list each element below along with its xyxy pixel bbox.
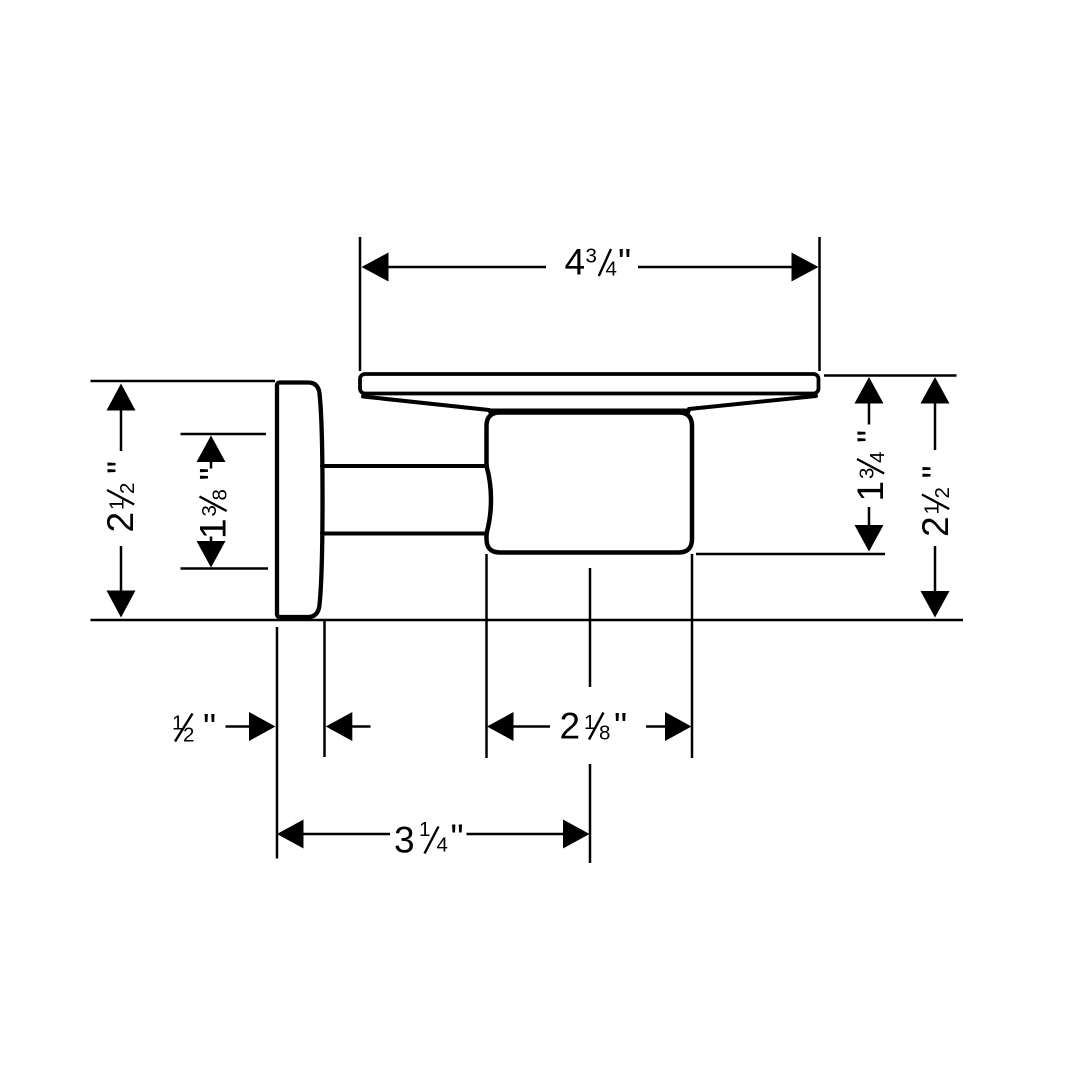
dimension line 1-3/8 (210, 462, 213, 541)
svg-text:": " (193, 467, 234, 480)
extension line 1-3/8 bottom (181, 567, 269, 570)
dimension line 2-1/8 (513, 725, 666, 728)
svg-text:1: 1 (850, 481, 891, 502)
wall baseline (91, 619, 964, 622)
extension line holder right below (691, 554, 694, 758)
dimension line 2-1/2 left (120, 411, 123, 591)
arrowhead 1/2 left (249, 712, 276, 741)
dish taper left (363, 397, 489, 411)
extension line 4-3/4 left (359, 237, 362, 371)
extension line 4-3/4 right (818, 237, 821, 371)
dimension line 1/2 (226, 725, 371, 728)
arrowhead 2-1/2 left bottom (107, 591, 136, 618)
label 2-1/2 inch right (rotated) (915, 465, 956, 537)
svg-text:2: 2 (183, 724, 194, 747)
svg-text:2: 2 (116, 483, 139, 494)
svg-text:": " (614, 706, 627, 747)
arrowhead 3-1/4 left (277, 820, 304, 849)
svg-text:4: 4 (565, 242, 586, 283)
arrowhead 2-1/2 left top (107, 384, 136, 411)
wall plate (277, 383, 323, 618)
arm top line (322, 464, 487, 468)
extension line wall plate left below (276, 627, 279, 859)
holder body (487, 413, 693, 553)
svg-text:2: 2 (931, 487, 954, 498)
holder top edge thick band (491, 409, 688, 415)
arrowhead 3-1/4 right (563, 820, 590, 849)
svg-text:2: 2 (915, 516, 956, 537)
arrowhead 2-1/2 right bottom (921, 591, 950, 618)
label 1-3/4 inch (rotated) (850, 430, 891, 502)
label 2-1/8 inch (560, 706, 628, 747)
svg-text:3: 3 (394, 820, 415, 861)
arrowhead 1-3/8 top (197, 436, 226, 463)
svg-text:": " (100, 461, 141, 474)
extension line 1-3/8 top (181, 433, 267, 436)
arm bottom line (322, 532, 487, 536)
dish taper right (689, 396, 816, 409)
svg-text:8: 8 (209, 489, 232, 500)
dimension line 4-3/4 (388, 266, 793, 269)
arrowhead 2-1/2 right top (921, 377, 950, 404)
svg-text:1: 1 (193, 518, 234, 539)
svg-text:2: 2 (100, 512, 141, 533)
arrowhead 2-1/8 right (665, 712, 692, 741)
dimension line 2-1/2 right (934, 404, 937, 592)
extension line top-right (824, 374, 957, 377)
extension line holder center below (589, 568, 592, 863)
soap dish plate (360, 374, 819, 394)
arrowhead 1/2 right (326, 712, 353, 741)
svg-text:": " (618, 242, 631, 283)
label 1/2 inch (172, 707, 216, 748)
svg-text:4: 4 (866, 452, 889, 463)
svg-text:4: 4 (606, 258, 617, 281)
svg-text:": " (850, 430, 891, 443)
arrowhead 4-3/4 left (362, 253, 389, 282)
svg-text:2: 2 (560, 706, 581, 747)
label 4-3/4 inch (565, 242, 632, 283)
dimension line 3-1/4 (303, 833, 564, 836)
label 3-1/4 inch (394, 817, 464, 861)
arrowhead 4-3/4 right (792, 253, 819, 282)
arrowhead 2-1/8 left (487, 712, 514, 741)
svg-text:": " (915, 465, 956, 478)
extension line wall plate right below (323, 620, 326, 757)
label 2-1/2 inch left (rotated) (100, 461, 141, 533)
arrowhead 1-3/4 bottom (855, 525, 884, 552)
extension line 1-3/4 bottom (696, 553, 885, 556)
extension line holder left below (485, 554, 488, 758)
svg-text:4: 4 (437, 834, 448, 857)
arrowhead 1-3/8 bottom (197, 541, 226, 568)
svg-text:8: 8 (599, 722, 610, 745)
svg-text:": " (451, 817, 464, 858)
arrowhead 1-3/4 top (855, 377, 884, 404)
extension line top-left (91, 380, 276, 383)
svg-text:3: 3 (586, 245, 597, 268)
label 1-3/8 inch (rotated) (193, 467, 234, 539)
svg-text:1: 1 (419, 818, 430, 841)
dimension line 1-3/4 (868, 404, 871, 526)
svg-text:": " (203, 707, 216, 748)
